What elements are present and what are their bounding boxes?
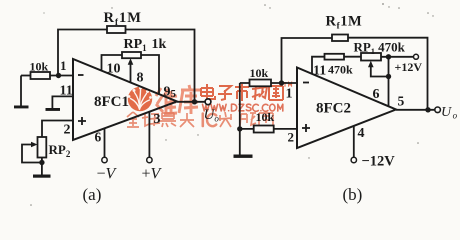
wire feedback top left (a) [58, 30, 107, 76]
terminal Uo (a) [205, 99, 211, 105]
minus sign U1 [78, 74, 84, 76]
svg-text:8: 8 [137, 71, 144, 86]
wire feedback top right (a) [126, 30, 195, 102]
svg-text:−V: −V [97, 166, 118, 183]
svg-text:−12V: −12V [362, 154, 396, 170]
wiper RP1 (a) [130, 64, 132, 83]
svg-text:9: 9 [164, 85, 171, 100]
svg-text:1: 1 [286, 87, 293, 102]
wiper RP1 (b) [371, 66, 389, 77]
watermark slogan 全球最大IC采购网 [127, 112, 194, 127]
svg-text:6: 6 [95, 130, 102, 145]
plus sign U2 [302, 124, 310, 132]
watermark TM [283, 83, 291, 87]
terminal Uo (b) [435, 107, 441, 113]
wiper RP2 [22, 145, 42, 163]
node output (b) [425, 107, 430, 112]
svg-text:10k: 10k [30, 60, 49, 74]
resistor 10k (a) [31, 72, 51, 79]
node wiper (b) [386, 74, 391, 79]
wire RP1 left to pin 10 (a) [102, 55, 123, 71]
wire RP2 bottom [41, 158, 43, 176]
wire output (a) [177, 101, 205, 103]
wire input (b) [240, 82, 297, 84]
svg-text:6: 6 [373, 87, 380, 102]
node input (a) [56, 73, 61, 78]
svg-text:470k: 470k [328, 63, 353, 77]
wire input left (a) [21, 75, 31, 77]
svg-text:8FC1: 8FC1 [94, 94, 129, 110]
node input (b) [279, 80, 284, 85]
resistor 10k top (b) [250, 80, 272, 87]
svg-text:10k: 10k [256, 110, 275, 124]
potentiometer RP1 (b) [361, 53, 381, 61]
watermark text 电子市场网 [201, 84, 283, 101]
wire RP1 to +12V terminal (b) [381, 56, 414, 58]
svg-text:Rf1M: Rf1M [104, 10, 142, 27]
wire left rail down (b) [239, 83, 241, 155]
svg-text:(a): (a) [83, 185, 102, 204]
resistor Rf (b) [332, 35, 348, 42]
resistor Rf (a) [107, 26, 126, 33]
svg-text:5: 5 [398, 94, 405, 109]
wire pin 4 to -12V (b) [353, 126, 355, 157]
ground rail (b) [234, 155, 253, 158]
wire node to op-amp (a) [50, 75, 73, 77]
svg-text:1: 1 [60, 58, 67, 73]
terminal +12V [414, 54, 419, 59]
wire pin 11 (a) [52, 96, 73, 108]
svg-text:(b): (b) [343, 185, 363, 204]
op-amp U1 8FC1 [73, 59, 177, 140]
op-amp U2 8FC2 [297, 68, 396, 149]
watermark logo [128, 87, 153, 112]
scan specks [30, 3, 434, 206]
wire pin 6 (b) [388, 57, 390, 107]
svg-text:+V: +V [142, 166, 163, 183]
resistor 470k (b) [325, 54, 345, 60]
svg-text:3: 3 [154, 112, 161, 127]
node rail (b) [237, 126, 242, 131]
svg-text:8FC2: 8FC2 [316, 101, 351, 117]
terminal -12V [351, 157, 356, 162]
svg-text:10: 10 [107, 62, 121, 77]
terminal -V (a) [102, 157, 107, 162]
ground pin 11 (a) [46, 108, 61, 111]
wire 470k to RP1 (b) [344, 56, 361, 58]
wire pin 3 to +V (a) [148, 112, 150, 158]
wire 10k bottom (b) [240, 128, 297, 130]
svg-text:5: 5 [171, 88, 177, 100]
node +12V rail (b) [386, 54, 391, 59]
wire RP1 right to pin 9 (a) [141, 55, 159, 94]
svg-text:Rf1M: Rf1M [326, 14, 363, 31]
terminal +V (a) [147, 157, 152, 162]
node output feedback (a) [192, 99, 197, 104]
svg-text:2: 2 [288, 130, 295, 145]
wire feedback top right (b) [348, 38, 428, 110]
wire pin 2 (a) [42, 121, 73, 138]
svg-text:11: 11 [313, 64, 326, 79]
ground stem 10k (a) [20, 76, 22, 106]
svg-text:11: 11 [60, 84, 73, 99]
minus sign U2 [303, 82, 309, 84]
watermark url [203, 104, 283, 111]
wire pin 11 to 470k (b) [312, 57, 325, 74]
ground 10k (a) [14, 106, 29, 109]
plus sign U1 [78, 117, 86, 125]
potentiometer RP2 [38, 137, 47, 158]
resistor 10k bottom (b) [254, 126, 274, 133]
wire feedback top left (b) [282, 38, 333, 83]
wire output (b) [396, 109, 435, 111]
node RP2 bottom [39, 160, 44, 165]
svg-text:2: 2 [64, 123, 71, 138]
wire pin 6 to -V (a) [104, 129, 106, 158]
potentiometer RP1 (a) [122, 52, 141, 58]
svg-text:4: 4 [358, 126, 365, 141]
ground RP2 [33, 175, 51, 178]
watermark big characters 维库 [156, 85, 200, 114]
svg-text:10k: 10k [250, 66, 269, 80]
svg-text:RP1 470k: RP1 470k [354, 40, 406, 57]
svg-text:+12V: +12V [395, 60, 423, 74]
